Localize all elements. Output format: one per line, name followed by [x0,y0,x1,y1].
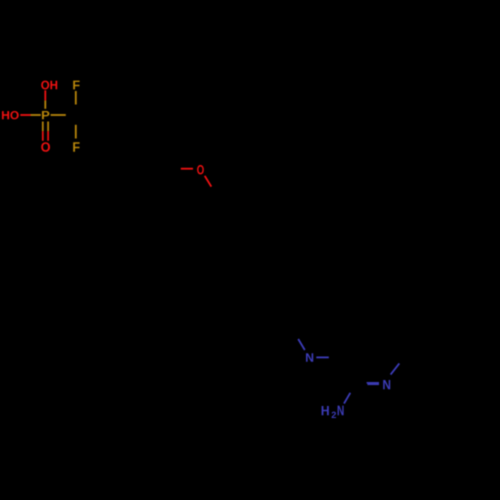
bond P-OH, P-side half (olive) [44,100,46,108]
bond H2N-C, diagonal, N-side half (blue) [344,393,350,404]
label N of H2N (amino nitrogen) [338,406,344,416]
bond C-F bottom, F-side half (olive) [75,125,77,139]
label O (ether oxygen) [197,165,204,174]
label 2 subscript of H2N [332,412,336,418]
double bond P=O, left line, O-side half (red) [42,131,44,141]
label H of H2N (amino group) [322,406,329,415]
label O (P=O oxygen) [41,142,50,152]
bond N2-CH3, diagonal, N-side half (blue) [391,363,400,374]
label OH (phosphonate hydroxyl) [41,81,57,90]
bond O ether-C, right diagonal, O-side half (red) [205,176,212,187]
double bond C=N2, upper line, N-side half (blue) [367,382,379,384]
label HO (phosphonate hydroxyl) [2,111,19,119]
label N (amine nitrogen N1) [306,353,313,362]
double bond C=N2, lower line, N-side half (blue) [367,383,379,385]
bond HO-P, O-side half (red) [20,114,30,116]
double bond P=O, right line, O-side half (red) [47,131,49,141]
label P (phosphorus) [42,111,49,119]
bond C-F top, F-side half (olive) [75,91,77,105]
bond P-C(F2), P-side half (olive) [51,114,66,116]
label F (top fluorine) [73,81,79,90]
double bond P=O, left line, P-side half (olive) [42,122,44,132]
bond C-O ether, left, O-side half (red) [181,168,193,170]
label N (imine nitrogen N2) [383,380,390,389]
label F (bottom fluorine) [73,142,79,152]
bond P-OH, O-side half (red) [44,90,46,100]
bond N1-C, horizontal right, N-side half (blue) [316,356,329,358]
double bond P=O, right line, P-side half (olive) [47,122,49,132]
bond HO-P, P-side half (olive) [31,114,41,116]
bond C-N1, upper-left diagonal, N-side half (blue) [298,339,305,350]
